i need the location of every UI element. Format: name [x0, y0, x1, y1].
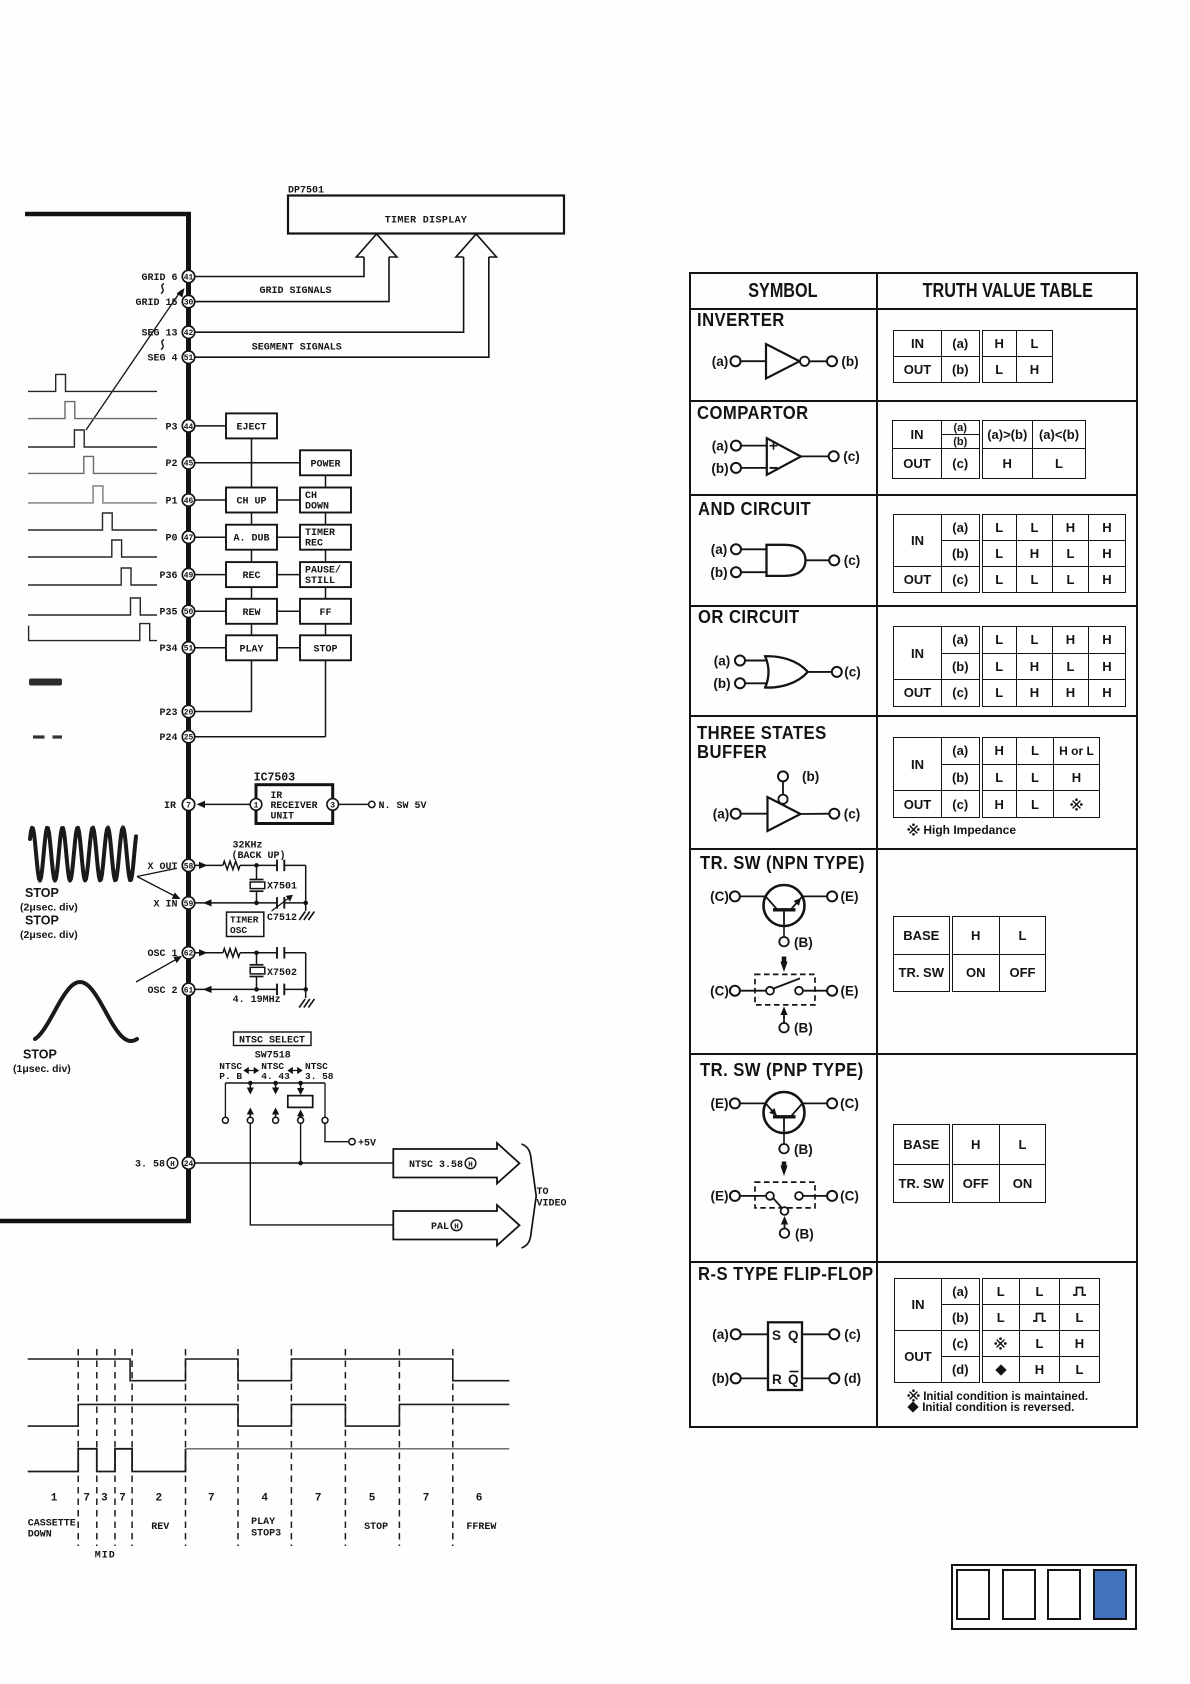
label STOP (1usec.div)	[13, 1048, 71, 1076]
legend table row lines	[0, 0, 1190, 1]
svg-text:(B): (B)	[794, 1021, 813, 1036]
timing phase numbers	[51, 1493, 483, 1505]
IC body right edge rail	[186, 212, 191, 1222]
page indicator frame	[951, 1564, 1136, 1630]
button POWER	[300, 450, 351, 475]
timing signal row 3	[28, 1449, 510, 1472]
truth table or	[893, 626, 1126, 707]
label 32KHz (BACK UP)	[232, 841, 286, 863]
legend table frame	[689, 272, 1138, 1428]
R-S flip-flop symbol	[712, 1322, 861, 1390]
wire A.DUB to TIMER REC	[277, 536, 300, 538]
pin GRID 6 (41)	[141, 270, 194, 284]
pin 3 of IC7503	[327, 799, 339, 811]
compartor symbol U (op-amp)	[711, 438, 859, 476]
timing mode labels	[28, 1517, 497, 1562]
label DP7501	[288, 186, 324, 197]
OR gate symbol	[713, 654, 860, 692]
block DP7501 TIMER DISPLAY	[288, 196, 564, 234]
brace TO VIDEO	[522, 1144, 537, 1248]
arrow NPN to switch	[780, 957, 787, 973]
squiggle between SEG 13 and SEG 4	[161, 340, 164, 350]
wire P3 to EJECT	[195, 425, 226, 427]
pin P24 (25)	[159, 731, 194, 745]
note initial condition maintained	[907, 1389, 1088, 1403]
svg-text:(a): (a)	[714, 654, 731, 669]
svg-text:(a): (a)	[711, 542, 728, 557]
svg-text:(b): (b)	[713, 676, 730, 691]
svg-text:(b): (b)	[711, 461, 728, 476]
wire REW to FF	[277, 610, 300, 612]
pin 3.58 H (24)	[135, 1157, 195, 1171]
svg-text:(d): (d)	[844, 1371, 861, 1386]
svg-text:(c): (c)	[844, 553, 861, 568]
svg-text:(E): (E)	[711, 1096, 729, 1111]
switch SW7518 top bus	[225, 1081, 325, 1117]
wire CH UP to CH DOWN	[277, 499, 300, 501]
block TIMER OSC	[227, 912, 264, 936]
wire IC7503 pin1 to IR pin	[197, 801, 251, 808]
timing diagram dashed grid lines	[78, 1349, 453, 1546]
svg-text:(E): (E)	[711, 1189, 729, 1204]
svg-text:(c): (c)	[844, 807, 861, 822]
svg-text:(c): (c)	[844, 1327, 861, 1342]
wire P36 to REC	[195, 574, 226, 576]
wire GRID 15 to display arrow	[195, 257, 389, 302]
waveform scan pulse row 7	[28, 540, 157, 557]
svg-text:(E): (E)	[841, 983, 859, 998]
waveform scan pulse row 5	[28, 486, 157, 503]
capacitor on OSC 1 line	[277, 947, 284, 959]
IC body bottom edge	[0, 1219, 191, 1224]
right rail / ground of 4.19MHz osc	[299, 953, 314, 1008]
wire X OUT line	[195, 862, 306, 869]
legend table column divider	[876, 272, 878, 1428]
wire P35 to REW	[195, 610, 226, 612]
svg-text:S: S	[772, 1328, 781, 1343]
junction OSC1 / X7502	[254, 951, 259, 956]
wire P0 to A.DUB	[195, 536, 226, 538]
up arrow contact 4 into box	[297, 1110, 304, 1118]
label IC7503	[254, 772, 296, 785]
button TIMER REC	[300, 525, 351, 550]
block IC7503 IR RECEIVER UNIT	[256, 785, 333, 824]
button REC	[226, 562, 277, 587]
waveform scan pulse row 8	[28, 568, 157, 585]
svg-text:(a): (a)	[712, 439, 729, 454]
svg-text:(C): (C)	[840, 1096, 859, 1111]
wire P2 to POWER	[195, 462, 300, 464]
pin X OUT (58)	[147, 859, 194, 873]
truth table three-states	[893, 737, 1100, 818]
wire P24 to STOP column	[195, 736, 326, 738]
waveform scan pulse row 1	[28, 374, 157, 391]
output arrow NTSC 3.58 H	[393, 1143, 519, 1184]
crystal X7502	[250, 953, 298, 990]
svg-text:(b): (b)	[802, 769, 819, 784]
wire SEG 13 to display arrow	[195, 257, 464, 332]
timing signal row 2	[28, 1404, 510, 1426]
row title OR CIRCUIT	[698, 606, 800, 628]
junction OSC2 / X7502	[254, 987, 259, 992]
label GRID SIGNALS	[260, 286, 332, 297]
pin SEG 4 (51)	[147, 351, 194, 365]
wire P34 to PLAY	[195, 647, 226, 649]
label SEGMENT SIGNALS	[252, 342, 342, 353]
waveform scan pulse row 9	[28, 598, 157, 615]
row title COMPARTOR	[697, 402, 809, 424]
truth table and	[893, 514, 1126, 593]
waveform scan pulse row 2	[28, 402, 157, 419]
pin X IN (59)	[153, 897, 194, 911]
label SW7518	[255, 1051, 291, 1062]
wire contact 5 to +5V	[325, 1123, 376, 1149]
switch position labels	[219, 1061, 334, 1082]
block arrow segment signals	[456, 234, 497, 257]
waveform scan pulse row 6	[28, 513, 157, 530]
row title TR. SW (PNP TYPE)	[700, 1059, 864, 1081]
svg-text:Q: Q	[788, 1328, 799, 1343]
svg-text:(C): (C)	[710, 983, 729, 998]
svg-text:(B): (B)	[794, 935, 813, 950]
row title R-S TYPE FLIP-FLOP	[698, 1263, 874, 1285]
truth table rs-flipflop	[894, 1278, 1100, 1383]
wire IC7503 pin3 to N.SW 5V	[339, 801, 427, 812]
page indicator squares	[0, 0, 1190, 1]
transistor PNP symbol	[711, 1092, 859, 1157]
svg-text:(b): (b)	[712, 1371, 729, 1386]
svg-text:(B): (B)	[795, 1227, 814, 1242]
pin P2 (45)	[165, 457, 194, 471]
switch equivalent NPN	[710, 974, 858, 1005]
pin OSC 2 (61)	[147, 983, 194, 997]
output arrow PAL H	[393, 1205, 519, 1246]
waveform scan pulse row 3	[28, 430, 157, 447]
AND gate symbol	[710, 542, 860, 580]
scan smudge artifact	[29, 679, 62, 686]
note initial condition reversed	[907, 1402, 1074, 1414]
pin P23 (20)	[159, 705, 194, 719]
switch SW7518 contacts	[222, 1117, 328, 1123]
wire P1 to CH UP	[195, 499, 226, 501]
wire OSC 1 line	[195, 949, 306, 956]
pin GRID 15 (30)	[135, 295, 194, 309]
annotation line sine to OSC 1	[136, 953, 184, 982]
switch equivalent PNP	[711, 1182, 859, 1215]
three states buffer symbol	[713, 769, 861, 831]
pin P34 (51)	[159, 642, 194, 656]
down arrow into wiper box	[297, 1083, 304, 1095]
capacitor on X OUT line	[277, 860, 284, 872]
button FF	[300, 599, 351, 624]
row title AND CIRCUIT	[698, 498, 811, 520]
svg-text:(B): (B)	[794, 1142, 813, 1157]
wire button column right vertical	[325, 475, 327, 736]
timing signal row 1	[28, 1359, 510, 1381]
button CH DOWN	[300, 488, 351, 513]
wire PLAY to STOP	[277, 647, 300, 649]
transistor NPN symbol	[710, 885, 858, 950]
resistor on X OUT line	[223, 861, 240, 869]
arrow PNP to switch	[780, 1162, 787, 1177]
wire OSC 2 line	[195, 986, 306, 993]
trimmer capacitor C7512	[267, 892, 297, 924]
truth table inverter	[893, 330, 1053, 383]
svg-text:R: R	[772, 1372, 782, 1387]
svg-text:(b): (b)	[841, 354, 858, 369]
base arrow PNP switch	[780, 1216, 814, 1242]
row title THREE STATES BUFFER	[697, 724, 827, 761]
label 4.19MHz	[233, 995, 281, 1006]
svg-text:(a): (a)	[712, 1327, 729, 1342]
wire P23 to PLAY column	[195, 711, 252, 713]
svg-text:(a): (a)	[713, 807, 730, 822]
switch wiper box	[288, 1096, 313, 1108]
pin 1 of IC7503	[250, 799, 262, 811]
waveform scan pulse row 4	[28, 456, 157, 473]
waveform 4.19MHz sine (scope)	[35, 982, 137, 1041]
label STOP (2usec.div) x2	[20, 886, 78, 941]
waveform scan pulse row 10	[29, 624, 157, 641]
svg-text:(C): (C)	[840, 1189, 859, 1204]
svg-text:(b): (b)	[710, 565, 727, 580]
annotation arrow from waveforms to grid pins	[86, 286, 187, 430]
label TO VIDEO	[537, 1187, 567, 1210]
block arrow grid signals	[356, 234, 397, 257]
pin IR (7)	[164, 798, 195, 812]
pin P1 (46)	[165, 494, 194, 508]
wire contact 4 to 3.58 line	[298, 1123, 303, 1165]
row title TR. SW (NPN TYPE)	[700, 852, 865, 874]
button PLAY	[226, 635, 277, 660]
wire X IN line	[195, 899, 306, 906]
squiggle between GRID 6 and GRID 15	[161, 284, 164, 294]
pin P36 (49)	[159, 568, 194, 582]
pin SEG 13 (42)	[141, 326, 194, 340]
wire REC to PAUSE/STILL	[277, 574, 300, 576]
scan dash artifacts	[33, 735, 62, 738]
junction X OUT / X7501	[254, 863, 259, 868]
button PAUSE/STILL	[300, 562, 351, 587]
double arrows between positions	[243, 1067, 302, 1074]
up arrow contact 2	[247, 1108, 254, 1118]
button CH UP	[226, 488, 277, 513]
junction X IN / X7501	[254, 901, 259, 906]
pin OSC 1 (62)	[147, 947, 194, 961]
right rail / ground of 32kHz osc	[299, 865, 314, 920]
crystal X7501	[250, 865, 298, 903]
truth table compartor	[892, 420, 1086, 479]
wire button column left vertical	[251, 438, 253, 711]
IC body top edge	[25, 212, 191, 217]
label NTSC SELECT box	[234, 1032, 312, 1047]
base arrow NPN switch	[779, 1007, 812, 1036]
svg-text:(a): (a)	[712, 354, 729, 369]
svg-text:(c): (c)	[844, 665, 861, 680]
button STOP	[300, 635, 351, 660]
svg-text:(C): (C)	[710, 889, 729, 904]
header TRUTH VALUE TABLE	[877, 279, 1138, 303]
down arrow position 3	[272, 1083, 279, 1095]
resistor on OSC 1 line	[223, 949, 240, 957]
annotation lines sine to X OUT / X IN	[137, 868, 182, 902]
button EJECT	[226, 413, 277, 438]
svg-text:(c): (c)	[843, 449, 860, 464]
svg-text:Q: Q	[788, 1372, 799, 1387]
pin P35 (50)	[159, 605, 194, 619]
svg-text:(E): (E)	[841, 889, 859, 904]
waveform 32kHz sine (scope)	[30, 828, 136, 881]
wire contact 2 to PAL line	[250, 1123, 393, 1225]
button REW	[226, 599, 277, 624]
wire 3.58 pin to NTSC arrow	[195, 1162, 393, 1164]
wire SEG 4 to display arrow	[195, 257, 489, 357]
note high impedance	[907, 823, 1016, 837]
up arrow contact 3	[272, 1108, 279, 1118]
row title INVERTER	[697, 309, 785, 331]
pin P0 (47)	[165, 531, 194, 545]
down arrow position 2	[247, 1083, 254, 1095]
inverter symbol	[712, 344, 859, 379]
button A.DUB	[226, 525, 277, 550]
pin P3 (44)	[165, 420, 194, 434]
header SYMBOL	[689, 279, 877, 303]
truth table npn	[893, 916, 1046, 992]
truth table pnp	[893, 1124, 1046, 1203]
wire GRID 6 to display arrow	[195, 257, 364, 277]
capacitor on OSC 2 line	[277, 984, 284, 996]
